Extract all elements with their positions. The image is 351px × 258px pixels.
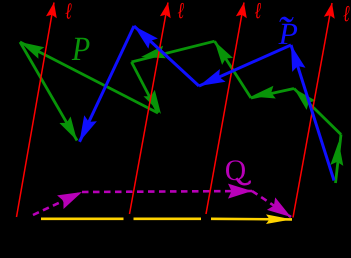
swash tail of Q <box>237 178 250 184</box>
path Q segment q2 <box>252 191 291 217</box>
label l3 <box>255 3 261 19</box>
path P segment g3 <box>215 41 251 98</box>
path P segment g4 <box>132 41 215 62</box>
path Q segment q1 <box>82 191 252 192</box>
label l4 <box>343 6 349 22</box>
path Q segment q0 <box>33 192 82 215</box>
path Ptilde segment b0 <box>291 45 334 181</box>
arrow of b2 <box>134 26 158 49</box>
yellow segment y3 <box>211 218 292 221</box>
path Ptilde segment b3 <box>80 26 135 142</box>
arrow of g6 <box>20 42 44 59</box>
arrow of g3 <box>215 41 233 65</box>
path P segment g6 <box>20 42 158 113</box>
label l2 <box>178 3 184 19</box>
arrow of g0 <box>330 142 343 166</box>
line l3 <box>206 3 244 215</box>
path P segment g0 <box>336 135 342 184</box>
arrow of g5 <box>144 90 162 114</box>
arrow of b3 <box>80 115 97 142</box>
label P <box>72 38 90 60</box>
label Q <box>226 160 246 184</box>
arrow of l2 <box>160 3 171 19</box>
arrow of l3 <box>236 3 247 19</box>
arrow of yellow <box>266 214 292 224</box>
arrow of g7 <box>59 117 77 141</box>
arrow of l1 <box>46 3 57 19</box>
path P segment g1 <box>294 89 341 135</box>
arrow of g4 <box>141 46 166 59</box>
arrow of l4 <box>324 3 335 19</box>
arrow of q0 <box>57 192 82 209</box>
line l1 <box>17 3 55 218</box>
label l1 <box>66 3 72 19</box>
arrow of b0 <box>291 45 306 72</box>
arrow of q1 <box>228 184 252 199</box>
arrow of q2 <box>267 197 291 217</box>
yellow segment y2 <box>134 218 202 221</box>
line l2 <box>130 3 169 215</box>
tilde of Ptilde <box>279 17 293 23</box>
arrow of b1 <box>199 69 226 86</box>
path P segment g2 <box>251 89 294 99</box>
line l4 <box>293 3 332 218</box>
yellow segment y1 <box>41 218 124 221</box>
label Ptilde <box>278 24 297 44</box>
path Ptilde segment b2 <box>134 26 199 86</box>
arrow of g2 <box>251 86 276 99</box>
path Ptilde segment b1 <box>199 45 291 86</box>
path P segment g7 <box>20 42 77 141</box>
arrow of g1 <box>294 89 316 110</box>
path P segment g5 <box>132 62 159 113</box>
